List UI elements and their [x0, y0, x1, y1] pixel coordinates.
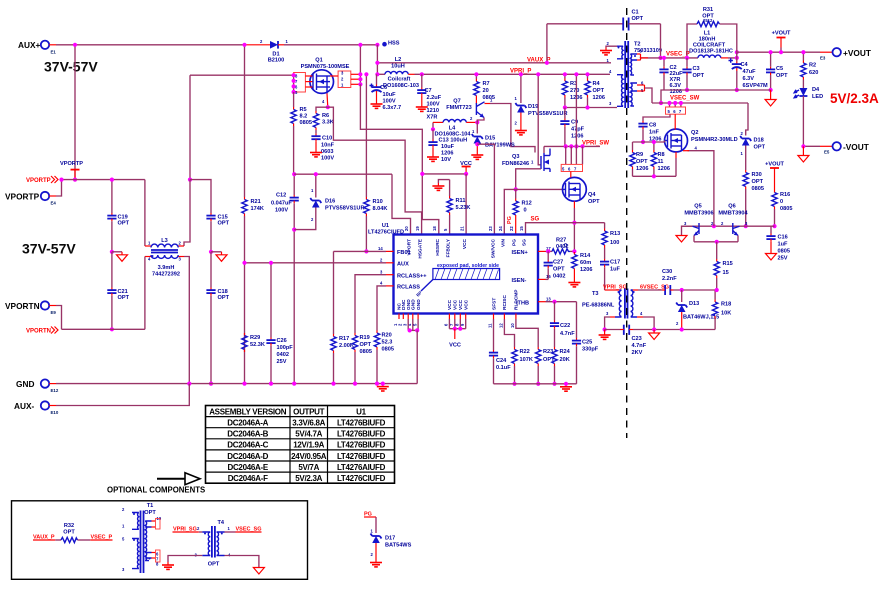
svg-text:Q1: Q1 — [315, 58, 322, 64]
svg-text:PG: PG — [507, 216, 513, 224]
svg-text:PSMN4R2-30MLD: PSMN4R2-30MLD — [691, 137, 738, 143]
svg-text:6.3x7.7: 6.3x7.7 — [383, 105, 402, 111]
resistor R10 — [364, 72, 388, 253]
svg-text:C4: C4 — [741, 62, 749, 68]
svg-text:R2: R2 — [809, 63, 816, 69]
svg-text:13: 13 — [546, 297, 551, 302]
svg-text:R9: R9 — [636, 152, 643, 158]
svg-text:RLDCMP: RLDCMP — [514, 289, 520, 310]
svg-text:0805: 0805 — [360, 349, 372, 355]
wire 6VSEC_SG line — [638, 289, 662, 291]
svg-text:22: 22 — [509, 226, 514, 231]
svg-text:PTVS58VS1UR: PTVS58VS1UR — [325, 206, 364, 212]
svg-text:620: 620 — [809, 70, 818, 76]
terminal E4 VPORTP — [5, 192, 56, 206]
terminal E1 AUX+ — [18, 40, 56, 54]
svg-text:OPT: OPT — [632, 16, 644, 22]
svg-text:Q4: Q4 — [588, 192, 596, 198]
op-amp U1 LT4276CIUFD body — [368, 223, 538, 314]
svg-text:VCC: VCC — [453, 299, 459, 310]
transistor Q1 PSMN075-100MSE — [294, 58, 361, 108]
wire L3 pin2 up — [184, 180, 190, 246]
svg-text:C22: C22 — [560, 323, 570, 329]
svg-text:0805: 0805 — [300, 120, 312, 126]
svg-text:E9: E9 — [51, 310, 57, 315]
svg-text:C27: C27 — [553, 260, 563, 266]
wire W2 source sense to HSSRC — [360, 84, 438, 234]
svg-text:C25: C25 — [582, 340, 592, 346]
svg-text:19: 19 — [415, 226, 420, 231]
terminal E5 -VOUT — [824, 142, 869, 155]
wire under-U1 GND rail — [494, 383, 577, 385]
svg-text:B2100: B2100 — [268, 58, 284, 64]
svg-text:VCC: VCC — [447, 299, 453, 310]
svg-text:1206: 1206 — [571, 134, 583, 140]
wire VCC node down to U1 VCC pin — [465, 174, 467, 235]
svg-text:5V/2.3A: 5V/2.3A — [295, 474, 322, 483]
net label VPORTP — [26, 176, 58, 184]
ground under U1 rail — [560, 382, 572, 392]
net label VSEC_P in box — [90, 535, 112, 541]
svg-text:SFST: SFST — [491, 298, 497, 310]
svg-text:OPT: OPT — [63, 530, 75, 536]
svg-text:0: 0 — [524, 208, 527, 214]
svg-text:Q2: Q2 — [691, 130, 698, 136]
wire C1 right leg down to VSEC_P — [660, 24, 662, 58]
svg-text:VCC: VCC — [462, 238, 468, 249]
resistor R18 — [712, 290, 731, 330]
wire T3 bottom line with C23 — [605, 329, 716, 331]
U1 bottom pin names — [393, 289, 520, 328]
svg-text:100V: 100V — [427, 102, 440, 108]
svg-text:37V-57V: 37V-57V — [22, 241, 76, 257]
wire VSEC_P rail — [641, 57, 699, 59]
resistor R29 — [242, 333, 265, 352]
capacitor C6 — [370, 74, 402, 111]
svg-text:20K: 20K — [560, 357, 570, 363]
ground right of C15 — [211, 252, 227, 261]
svg-text:47pF: 47pF — [571, 127, 585, 133]
svg-text:OPT: OPT — [754, 145, 766, 151]
ground right of C19 — [112, 252, 128, 261]
node Q1 gate junction — [326, 105, 330, 109]
wire E4 to VPORTP rail — [56, 180, 62, 196]
svg-text:BAV199WS: BAV199WS — [485, 143, 515, 149]
svg-text:ASSEMBLY VERSION: ASSEMBLY VERSION — [209, 407, 287, 416]
svg-text:10K: 10K — [721, 311, 731, 317]
capacitor C8 — [638, 114, 670, 144]
svg-text:R16: R16 — [780, 192, 790, 198]
svg-text:14: 14 — [378, 246, 383, 251]
svg-text:1210: 1210 — [427, 108, 439, 114]
ground T4 pin3 — [162, 556, 202, 570]
inductor L4 — [433, 120, 479, 138]
wire SG line — [526, 223, 605, 235]
svg-text:100pF: 100pF — [277, 345, 294, 351]
svg-text:BAT54WS: BAT54WS — [385, 543, 412, 549]
svg-text:DC2046A-F: DC2046A-F — [228, 474, 268, 483]
svg-text:C30: C30 — [662, 269, 672, 275]
ground T4 pin4 — [225, 556, 265, 575]
svg-text:U1: U1 — [356, 407, 366, 416]
U1 left pin names — [378, 246, 427, 291]
net label PG at D17 — [364, 512, 376, 518]
wire to C15 — [190, 180, 211, 213]
svg-text:R10: R10 — [373, 199, 383, 205]
svg-text:FDN86246: FDN86246 — [502, 161, 529, 167]
svg-text:PSMN075-100MSE: PSMN075-100MSE — [301, 64, 350, 70]
svg-text:R13: R13 — [610, 231, 620, 237]
svg-text:HSS: HSS — [388, 41, 400, 47]
wire VAUX_P rail — [377, 62, 611, 64]
svg-text:0805: 0805 — [752, 186, 764, 192]
svg-text:20: 20 — [404, 226, 409, 231]
transistor Q3 FDMS86246 — [502, 146, 550, 172]
svg-text:OPT: OPT — [218, 295, 230, 301]
transformer T2 750313109 — [607, 41, 663, 108]
wire VPRI_P to VPRI_SW vertical — [575, 74, 577, 146]
transistor Q6 MMBT3904 — [718, 204, 748, 242]
terminal E10 AUX- — [14, 401, 59, 415]
wire AUX- to GND rail — [56, 384, 189, 406]
power flag +VOUT mid — [765, 162, 784, 191]
wire Q1 source bus left to VPORTP — [190, 74, 294, 76]
transistor Q7 FMMT723 — [446, 98, 493, 123]
svg-text:R4: R4 — [593, 81, 601, 87]
svg-text:-VOUT: -VOUT — [843, 142, 869, 152]
svg-text:C5: C5 — [776, 66, 783, 72]
svg-text:OPT: OPT — [693, 73, 705, 79]
svg-text:10V: 10V — [441, 157, 451, 163]
svg-text:VIN: VIN — [500, 238, 506, 247]
wire -VOUT node — [803, 145, 820, 147]
capacitor C5 — [766, 50, 788, 92]
svg-text:15: 15 — [723, 270, 729, 276]
svg-text:L2: L2 — [395, 57, 402, 63]
svg-text:24V/0.95A: 24V/0.95A — [291, 452, 327, 461]
wire RCLASS++ line to R19 — [355, 275, 386, 333]
wire U1 VCC pins bracket — [449, 319, 465, 339]
svg-text:SG: SG — [531, 217, 540, 223]
resistor R19 — [352, 333, 372, 386]
ground at T2 pin2 — [600, 46, 617, 55]
svg-text:Q6: Q6 — [728, 204, 735, 210]
svg-text:4.7nF: 4.7nF — [560, 331, 575, 337]
svg-text:PE-68386NL: PE-68386NL — [582, 303, 615, 309]
svg-text:0402: 0402 — [277, 352, 289, 358]
svg-text:AUX-: AUX- — [14, 401, 35, 411]
terminal E3 +VOUT — [820, 48, 871, 61]
svg-text:52.3: 52.3 — [382, 340, 393, 346]
svg-text:OPT: OPT — [218, 221, 230, 227]
svg-text:LED: LED — [812, 94, 823, 100]
svg-text:DC2046A-B: DC2046A-B — [227, 430, 268, 439]
capacitor C19 — [107, 178, 129, 254]
transistor Q5 MMBT3906 — [684, 204, 714, 242]
svg-text:R6: R6 — [322, 113, 329, 119]
wire ISEN- line — [546, 278, 549, 280]
svg-text:12V/1.9A: 12V/1.9A — [293, 441, 324, 450]
svg-text:174K: 174K — [251, 206, 264, 212]
svg-text:VPORTP: VPORTP — [5, 192, 40, 202]
node HSS — [375, 41, 399, 47]
resistor R23 — [516, 319, 555, 386]
optional components arrow — [107, 473, 205, 495]
svg-text:10uH: 10uH — [391, 64, 405, 70]
wire T2 sec 6/5 to VSEC_SW — [645, 88, 653, 103]
wire D15 node to SWVCC pin — [477, 144, 494, 234]
wire Q4 source down — [573, 208, 575, 251]
svg-text:R31: R31 — [703, 7, 713, 13]
svg-text:2KV: 2KV — [632, 350, 643, 356]
resistor R3 — [562, 72, 582, 107]
capacitor C12 — [271, 172, 299, 386]
ground under -VOUT node — [798, 146, 809, 162]
svg-text:20: 20 — [483, 88, 489, 94]
resistor R11 — [447, 180, 471, 235]
wire secondary cap bottom rail — [664, 89, 771, 91]
resistor R13 — [602, 223, 620, 259]
diode D13 BAT46WJ — [676, 290, 719, 332]
svg-text:R23: R23 — [543, 349, 553, 355]
svg-text:107K: 107K — [520, 357, 533, 363]
svg-text:0: 0 — [564, 243, 567, 249]
wire RCLASS line to R20 — [377, 286, 386, 331]
svg-text:C17: C17 — [610, 260, 620, 266]
svg-text:C24: C24 — [496, 358, 507, 364]
wire T3 pin3 to ground — [605, 317, 610, 330]
svg-text:E1: E1 — [51, 49, 57, 54]
svg-text:D17: D17 — [385, 536, 395, 542]
capacitor C1 — [547, 10, 661, 31]
svg-text:6.3V: 6.3V — [743, 76, 755, 82]
svg-text:OPT: OPT — [752, 179, 764, 185]
diode D18 OPT — [740, 103, 765, 170]
svg-text:C8: C8 — [649, 123, 656, 129]
net label VPORTN — [26, 327, 58, 335]
svg-text:C9: C9 — [571, 120, 578, 126]
svg-text:0: 0 — [780, 199, 783, 205]
svg-text:C13 100uH: C13 100uH — [439, 138, 468, 144]
svg-text:270: 270 — [570, 88, 579, 94]
wire R12 node to Q4 gate — [516, 188, 563, 190]
svg-text:5V/4.7A: 5V/4.7A — [295, 430, 322, 439]
svg-text:R17: R17 — [339, 336, 349, 342]
resistor R31 — [685, 7, 737, 60]
svg-text:+VOUT: +VOUT — [843, 48, 871, 58]
transformer T3 PE-68386NL — [582, 289, 643, 319]
diode D1 — [245, 39, 289, 64]
resistor R9 — [630, 142, 649, 176]
resistor R16 — [772, 190, 793, 228]
svg-text:FFBDLY: FFBDLY — [446, 238, 452, 257]
svg-text:R18: R18 — [721, 302, 731, 308]
assembly version table — [206, 406, 395, 484]
svg-text:0.1uF: 0.1uF — [496, 365, 511, 371]
wire VPRI_SW rail — [544, 145, 600, 147]
diode D15 BAV199WS — [471, 122, 515, 159]
capacitor C17 — [600, 259, 621, 290]
svg-text:750313109: 750313109 — [634, 48, 662, 54]
resistor R20 — [374, 331, 394, 386]
diode D19 PTVS58VS1UR — [515, 72, 568, 135]
svg-text:11: 11 — [488, 323, 493, 328]
svg-text:DC2046A-D: DC2046A-D — [227, 452, 268, 461]
svg-text:HSSRC: HSSRC — [435, 238, 441, 255]
svg-text:R22: R22 — [520, 349, 530, 355]
wire C12 D16 top line — [294, 173, 392, 175]
svg-text:OPT: OPT — [636, 159, 648, 165]
capacitor C26 — [266, 261, 293, 386]
wire R12 node to VIN pin — [504, 189, 515, 234]
svg-text:E12: E12 — [51, 388, 59, 393]
resistor R8 — [651, 140, 670, 176]
power flag VCC — [460, 161, 472, 177]
wire ITHB node — [546, 301, 577, 303]
wire VSEC_SW rail — [652, 102, 748, 104]
svg-text:R21: R21 — [251, 199, 261, 205]
wire L4 node column — [432, 122, 434, 129]
transistor Q4 OPT — [563, 172, 601, 209]
svg-text:0805: 0805 — [778, 249, 790, 255]
svg-text:744272392: 744272392 — [152, 272, 180, 278]
svg-text:10nF: 10nF — [321, 143, 335, 149]
capacitor C21 — [107, 252, 129, 332]
wire E9 to VPORTN line — [56, 306, 62, 330]
svg-text:R8: R8 — [658, 152, 665, 158]
svg-text:GND: GND — [416, 299, 422, 310]
svg-text:DC2046A-E: DC2046A-E — [227, 463, 268, 472]
svg-text:21: 21 — [460, 226, 465, 231]
svg-text:+VOUT: +VOUT — [765, 162, 784, 168]
ground under T3 pin3 — [599, 330, 611, 340]
svg-text:6SVP47M: 6SVP47M — [743, 83, 769, 89]
svg-text:OPT: OPT — [118, 221, 130, 227]
svg-text:R12: R12 — [522, 201, 532, 207]
svg-text:Q7: Q7 — [453, 99, 460, 105]
resistor R5 — [291, 92, 312, 174]
wire VPORTP rail to L3 pin1 — [144, 180, 146, 246]
capacitor C7 — [416, 74, 442, 120]
svg-text:RCLASS++: RCLASS++ — [397, 274, 427, 280]
svg-text:HSGATE: HSGATE — [418, 238, 424, 258]
capacitor C27 — [544, 251, 566, 279]
wire HSS down to VPRI_P rail — [376, 45, 378, 75]
wire VCC line — [422, 173, 466, 175]
svg-text:52.3K: 52.3K — [250, 342, 265, 348]
svg-text:E4: E4 — [51, 201, 57, 206]
svg-text:11: 11 — [658, 159, 664, 165]
capacitor C9 — [560, 108, 584, 147]
svg-text:R30: R30 — [752, 172, 762, 178]
svg-text:Q5: Q5 — [694, 204, 701, 210]
svg-text:12: 12 — [499, 323, 504, 328]
svg-text:100V: 100V — [321, 156, 334, 162]
svg-text:OPT: OPT — [588, 199, 600, 205]
svg-text:OPT: OPT — [360, 342, 372, 348]
svg-text:C26: C26 — [277, 338, 287, 344]
net label VAUX_P in box — [33, 535, 55, 541]
transistor Q2 PSMN4R2-30MLD — [665, 114, 738, 158]
svg-text:RCLASS: RCLASS — [397, 285, 420, 291]
svg-text:FMMT723: FMMT723 — [446, 105, 472, 111]
svg-text:R24: R24 — [560, 349, 571, 355]
pin box Q2 — [666, 101, 686, 114]
svg-text:C1: C1 — [632, 10, 639, 16]
wire T2 sec 8/7 to VSEC_P — [641, 57, 649, 59]
svg-text:D15: D15 — [485, 136, 495, 142]
wire L3 pin4 down to VPORTN line — [144, 257, 146, 330]
svg-text:C6: C6 — [380, 85, 387, 91]
svg-text:L3: L3 — [161, 238, 168, 244]
wire C30 to R15 column — [674, 289, 717, 291]
svg-text:10uF: 10uF — [441, 144, 455, 150]
svg-text:RCISC: RCISC — [502, 295, 508, 310]
wire Q3 gate from R12 node — [516, 169, 541, 190]
svg-text:T3: T3 — [592, 291, 599, 297]
svg-text:2.2nF: 2.2nF — [662, 276, 677, 282]
svg-text:OPT: OPT — [208, 562, 220, 568]
svg-text:LT4276BIUFD: LT4276BIUFD — [337, 419, 386, 428]
capacitor C2 — [659, 56, 683, 95]
wire VPORT feed jog — [392, 174, 411, 234]
wire Q1 source to C15 junction — [189, 75, 191, 179]
svg-text:100V: 100V — [275, 208, 288, 214]
svg-text:T1: T1 — [147, 503, 154, 509]
capacitor C24 on SFST — [489, 319, 511, 384]
inductor L2 — [375, 57, 419, 89]
wire L1 to output rail step — [728, 52, 737, 58]
net label VSEC_SG in box — [225, 527, 262, 533]
ground under C10 — [310, 150, 322, 157]
svg-text:0805: 0805 — [780, 206, 792, 212]
svg-text:1206: 1206 — [580, 267, 592, 273]
svg-text:R32: R32 — [64, 523, 74, 529]
svg-text:100: 100 — [610, 240, 619, 246]
svg-text:LT4276BIUFD: LT4276BIUFD — [337, 430, 386, 439]
svg-text:VCC: VCC — [458, 299, 464, 310]
svg-text:D18: D18 — [754, 138, 764, 144]
capacitor C3 — [682, 58, 704, 92]
svg-text:1206: 1206 — [593, 95, 605, 101]
svg-text:OPT: OPT — [118, 295, 130, 301]
ground near R11 — [432, 180, 449, 191]
capacitor C18 — [206, 252, 229, 386]
ground left of Q5 — [676, 226, 692, 242]
svg-text:D16: D16 — [325, 199, 335, 205]
wire VPORTP rail — [62, 179, 145, 181]
svg-text:PG: PG — [512, 239, 518, 246]
svg-text:23: 23 — [488, 226, 493, 231]
resistor R17 — [331, 251, 354, 385]
wire Q5 Q6 top rail — [682, 225, 775, 227]
svg-text:R20: R20 — [382, 333, 392, 339]
diode D16 PTVS58VS1UR — [294, 172, 364, 230]
svg-text:0805: 0805 — [382, 347, 394, 353]
wire GND rail — [56, 383, 417, 385]
svg-text:10: 10 — [510, 323, 515, 328]
svg-text:VPRI_SW: VPRI_SW — [582, 141, 609, 147]
svg-text:E10: E10 — [51, 410, 59, 415]
svg-text:E3: E3 — [820, 56, 826, 61]
svg-text:24: 24 — [498, 226, 503, 231]
wire R9 R8 top rail — [633, 141, 665, 143]
wire C1 left leg to VAUX_P — [546, 24, 548, 63]
pin box Q4 — [561, 146, 582, 171]
svg-text:VPORTP: VPORTP — [26, 178, 51, 184]
svg-text:OUTPUT: OUTPUT — [293, 407, 325, 416]
svg-text:D13: D13 — [689, 301, 699, 307]
